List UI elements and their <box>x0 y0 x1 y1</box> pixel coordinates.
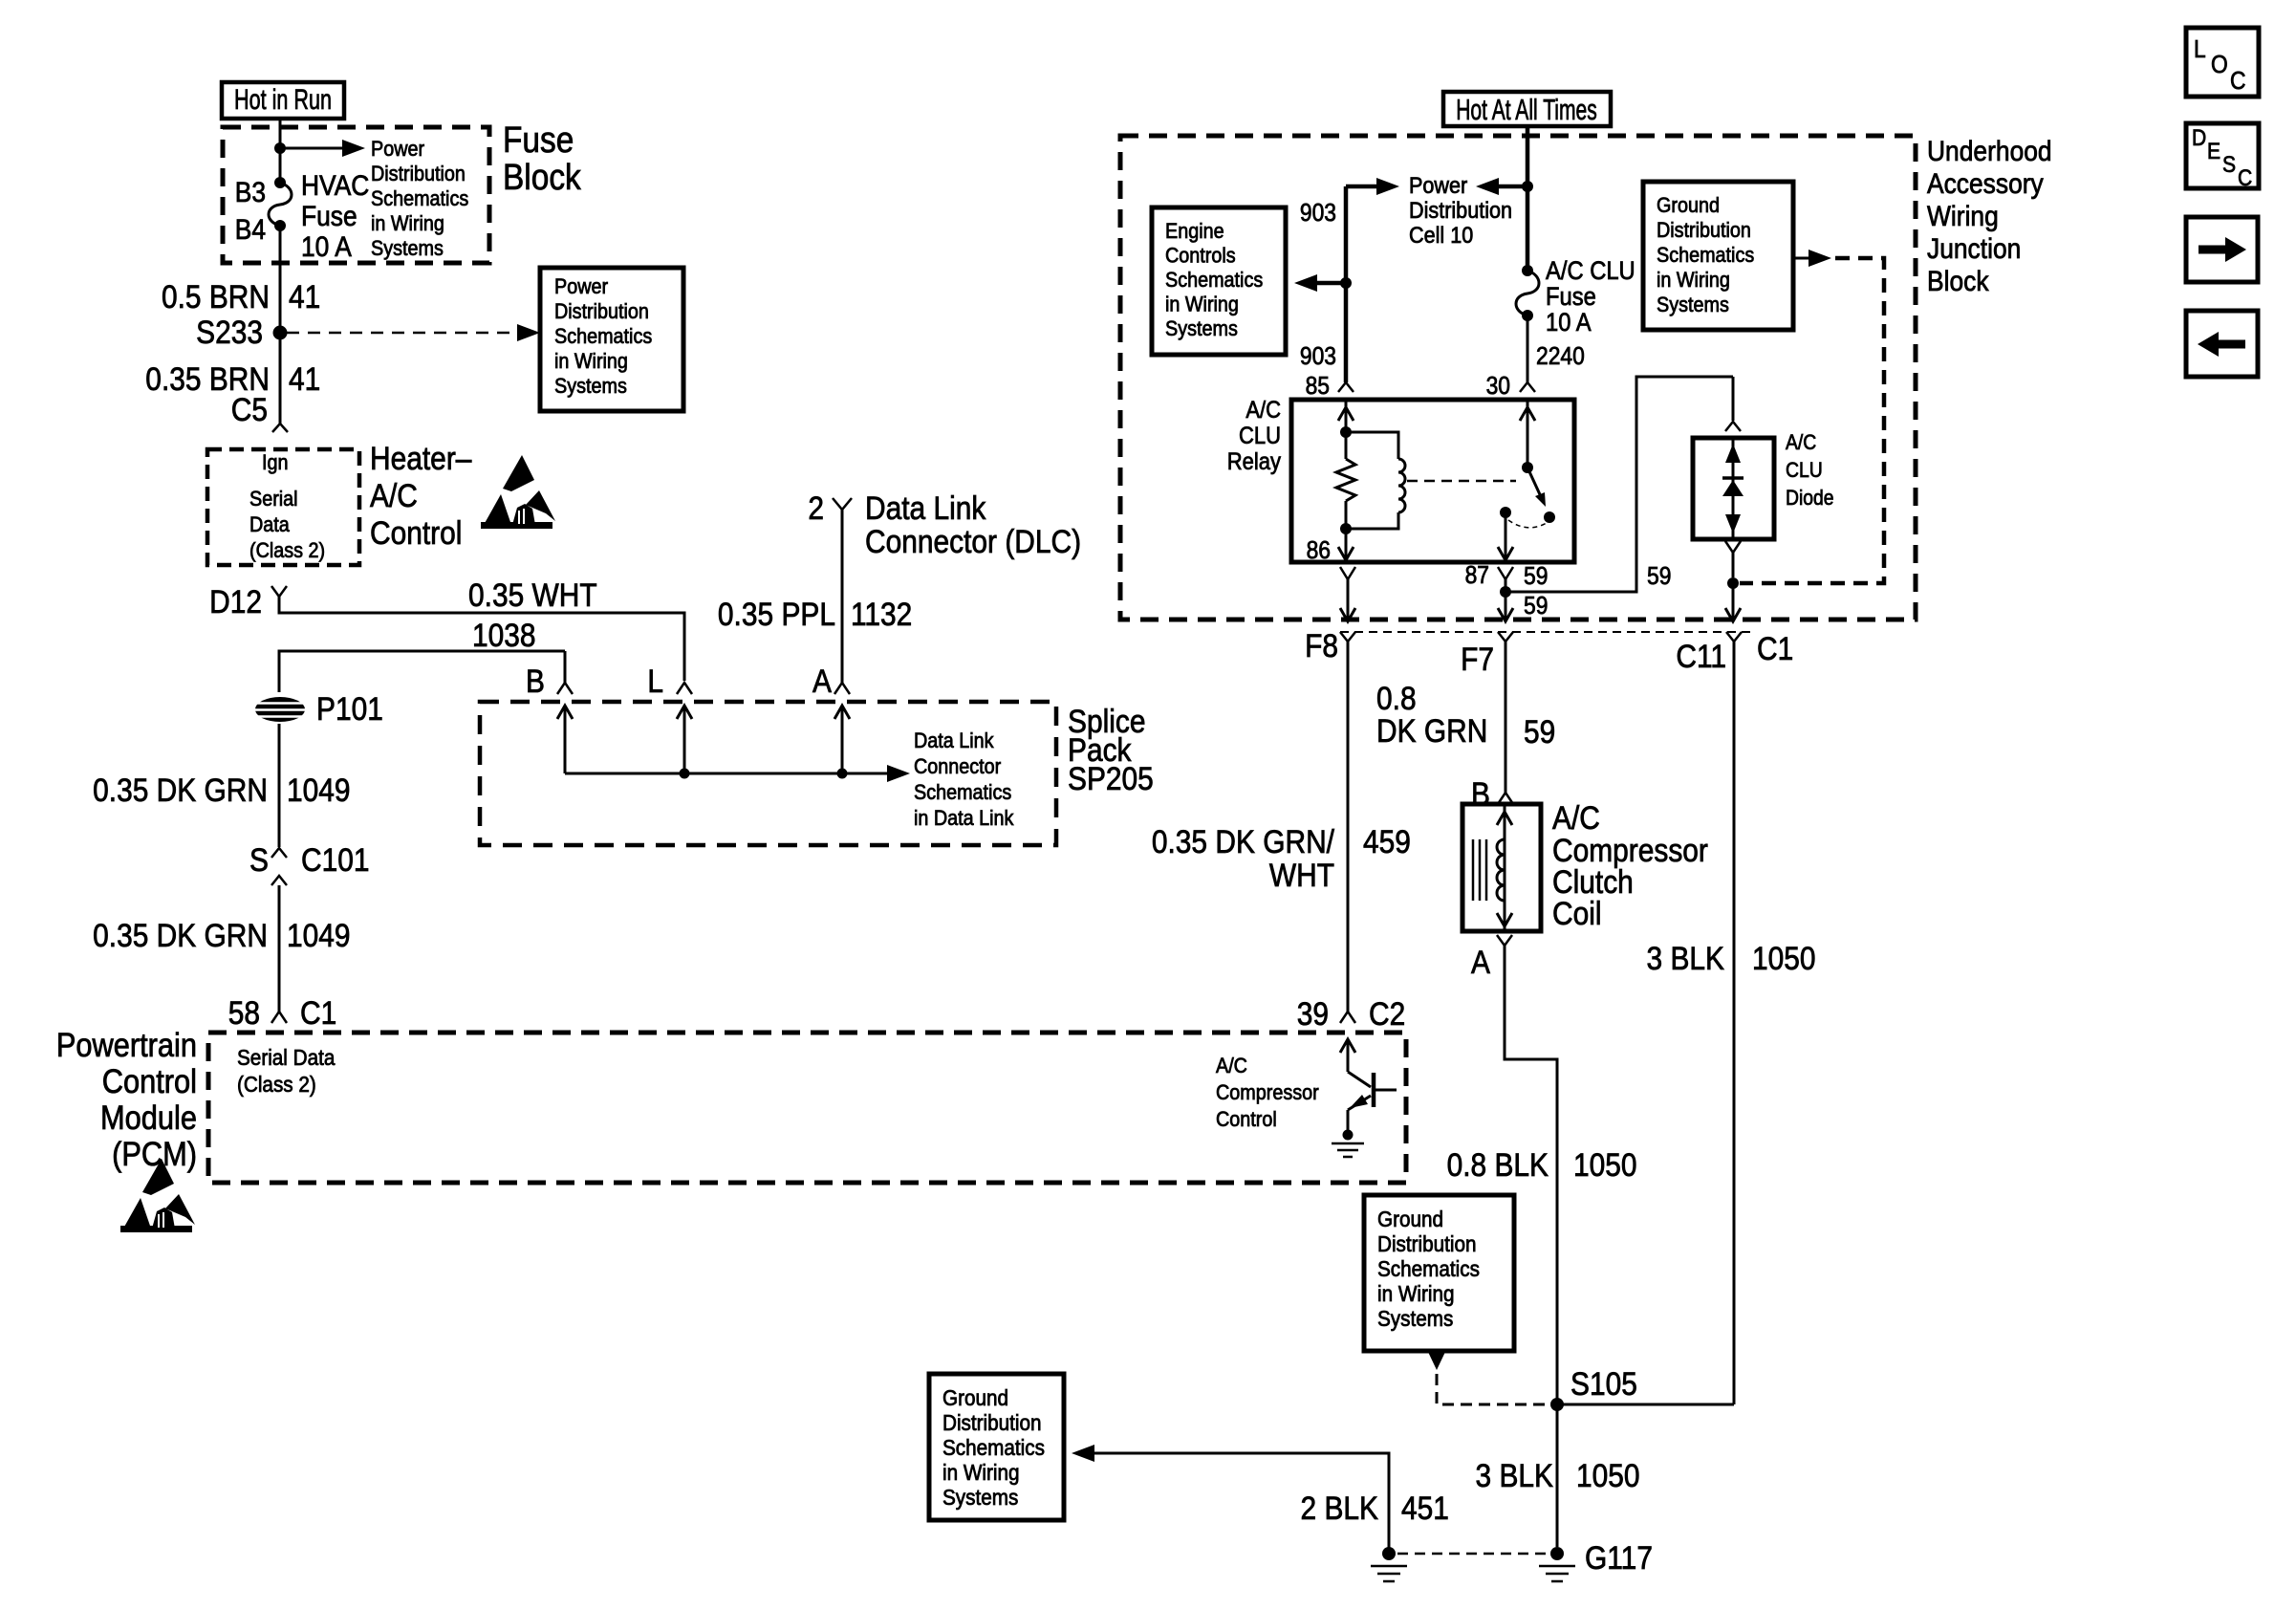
svg-text:1038: 1038 <box>472 617 536 653</box>
svg-text:3 BLK: 3 BLK <box>1647 940 1724 976</box>
svg-text:L: L <box>2194 36 2206 64</box>
svg-text:Serial Data: Serial Data <box>237 1045 336 1070</box>
svg-text:Connector: Connector <box>914 755 1001 778</box>
svg-text:(PCM): (PCM) <box>112 1135 197 1172</box>
svg-text:Serial: Serial <box>249 488 298 511</box>
svg-text:E: E <box>2207 139 2220 164</box>
svg-text:B: B <box>526 663 545 699</box>
svg-text:0.8 BLK: 0.8 BLK <box>1447 1146 1549 1183</box>
svg-text:Block: Block <box>1927 264 1989 296</box>
svg-text:A: A <box>812 663 833 699</box>
svg-text:Systems: Systems <box>371 237 444 260</box>
svg-text:C1: C1 <box>300 994 336 1031</box>
svg-text:A/C: A/C <box>1245 397 1281 424</box>
svg-text:(Class 2): (Class 2) <box>249 539 325 562</box>
svg-text:2: 2 <box>808 490 824 526</box>
svg-text:10 A: 10 A <box>301 229 352 262</box>
svg-text:459: 459 <box>1363 823 1411 859</box>
svg-text:Distribution: Distribution <box>1377 1231 1477 1256</box>
svg-text:G117: G117 <box>1585 1539 1653 1576</box>
svg-text:Diode: Diode <box>1786 487 1834 510</box>
svg-text:Systems: Systems <box>1165 317 1238 340</box>
svg-text:S105: S105 <box>1570 1365 1637 1402</box>
svg-text:C2: C2 <box>1369 995 1405 1032</box>
svg-text:0.35 PPL: 0.35 PPL <box>718 596 835 632</box>
svg-text:B4: B4 <box>235 212 266 245</box>
svg-text:Distribution: Distribution <box>1409 197 1512 223</box>
svg-text:Distribution: Distribution <box>371 163 466 185</box>
svg-text:F8: F8 <box>1305 627 1338 664</box>
svg-text:1050: 1050 <box>1576 1457 1640 1493</box>
svg-text:in Wiring: in Wiring <box>371 212 444 235</box>
svg-text:Schematics: Schematics <box>1165 269 1263 292</box>
svg-text:Data Link: Data Link <box>914 729 994 752</box>
svg-text:CLU: CLU <box>1239 423 1281 449</box>
svg-text:Fuse: Fuse <box>301 199 357 231</box>
svg-text:in Wiring: in Wiring <box>1377 1281 1455 1306</box>
svg-text:10 A: 10 A <box>1546 309 1592 337</box>
svg-text:Systems: Systems <box>942 1485 1018 1510</box>
svg-text:Data Link: Data Link <box>865 490 986 526</box>
svg-text:Ground: Ground <box>1657 194 1720 217</box>
svg-text:Cell 10: Cell 10 <box>1409 222 1473 248</box>
svg-text:Controls: Controls <box>1165 245 1236 268</box>
svg-text:0.35 DK GRN: 0.35 DK GRN <box>93 772 268 808</box>
svg-text:Systems: Systems <box>1377 1306 1453 1331</box>
svg-text:Hot At All Times: Hot At All Times <box>1456 93 1597 126</box>
svg-text:3 BLK: 3 BLK <box>1476 1457 1553 1493</box>
svg-text:59: 59 <box>1524 713 1555 750</box>
svg-text:86: 86 <box>1307 537 1331 565</box>
svg-text:451: 451 <box>1401 1490 1449 1526</box>
svg-text:Block: Block <box>503 157 581 197</box>
svg-text:B3: B3 <box>235 175 266 207</box>
svg-text:Junction: Junction <box>1927 231 2021 264</box>
svg-text:Ground: Ground <box>942 1385 1008 1410</box>
svg-text:Schematics: Schematics <box>914 781 1011 804</box>
svg-text:Connector (DLC): Connector (DLC) <box>865 523 1081 559</box>
svg-text:Hot in Run: Hot in Run <box>234 82 332 115</box>
svg-text:F7: F7 <box>1461 641 1494 677</box>
svg-text:Module: Module <box>100 1099 197 1136</box>
svg-text:0.8: 0.8 <box>1376 680 1417 716</box>
svg-text:Fuse: Fuse <box>503 120 574 160</box>
svg-text:CLU: CLU <box>1786 459 1823 482</box>
svg-text:Fuse: Fuse <box>1546 283 1596 312</box>
svg-text:Ground: Ground <box>1377 1207 1443 1231</box>
svg-text:B: B <box>1471 775 1490 812</box>
svg-text:2240: 2240 <box>1536 343 1585 371</box>
svg-text:A/C: A/C <box>1216 1055 1247 1077</box>
svg-text:Control: Control <box>102 1062 197 1099</box>
svg-text:A/C: A/C <box>1786 431 1816 454</box>
svg-text:Underhood: Underhood <box>1927 134 2052 166</box>
svg-text:S: S <box>249 841 269 878</box>
svg-text:87: 87 <box>1465 562 1489 590</box>
svg-text:Schematics: Schematics <box>942 1435 1045 1460</box>
svg-text:P101: P101 <box>316 690 383 727</box>
svg-text:59: 59 <box>1524 563 1548 591</box>
svg-text:Relay: Relay <box>1227 448 1281 475</box>
svg-text:Systems: Systems <box>554 375 627 398</box>
svg-text:Power: Power <box>371 138 424 161</box>
svg-text:59: 59 <box>1524 593 1548 620</box>
svg-text:Distribution: Distribution <box>942 1410 1042 1435</box>
svg-text:Schematics: Schematics <box>1377 1256 1480 1281</box>
svg-text:S233: S233 <box>196 314 263 350</box>
svg-text:Data: Data <box>249 513 290 536</box>
svg-text:Ign: Ign <box>262 451 289 474</box>
svg-text:in Wiring: in Wiring <box>1657 269 1730 292</box>
svg-text:0.5 BRN: 0.5 BRN <box>162 278 270 315</box>
svg-text:903: 903 <box>1300 200 1336 228</box>
svg-text:in Wiring: in Wiring <box>1165 294 1239 316</box>
svg-text:Control: Control <box>370 514 462 551</box>
svg-text:C: C <box>2238 165 2252 191</box>
svg-text:A: A <box>1471 944 1491 980</box>
svg-text:D12: D12 <box>209 583 262 620</box>
svg-text:85: 85 <box>1306 373 1330 401</box>
svg-text:41: 41 <box>289 278 320 315</box>
svg-text:0.35 DK GRN/: 0.35 DK GRN/ <box>1152 823 1334 859</box>
svg-text:1049: 1049 <box>287 772 351 808</box>
svg-text:L: L <box>647 663 663 699</box>
svg-text:HVAC: HVAC <box>301 168 369 201</box>
svg-text:Power: Power <box>554 275 608 298</box>
svg-text:39: 39 <box>1297 995 1329 1032</box>
svg-text:1049: 1049 <box>287 917 351 953</box>
svg-text:Schematics: Schematics <box>371 187 468 210</box>
svg-text:0.35 DK GRN: 0.35 DK GRN <box>93 917 268 953</box>
svg-text:903: 903 <box>1300 343 1336 371</box>
svg-text:1050: 1050 <box>1573 1146 1637 1183</box>
svg-text:C5: C5 <box>231 391 268 427</box>
svg-text:Systems: Systems <box>1657 294 1729 316</box>
svg-text:0.35 WHT: 0.35 WHT <box>468 577 597 613</box>
svg-text:Control: Control <box>1216 1108 1277 1131</box>
svg-text:Distribution: Distribution <box>554 300 649 323</box>
svg-text:2 BLK: 2 BLK <box>1301 1490 1378 1526</box>
svg-text:S: S <box>2222 152 2236 178</box>
svg-text:Engine: Engine <box>1165 220 1224 243</box>
svg-text:30: 30 <box>1486 373 1510 401</box>
svg-text:A/C CLU: A/C CLU <box>1546 257 1635 286</box>
svg-text:Coil: Coil <box>1552 895 1602 931</box>
svg-text:C1: C1 <box>1757 630 1793 666</box>
svg-text:A/C: A/C <box>370 477 418 513</box>
svg-text:Distribution: Distribution <box>1657 219 1751 242</box>
svg-text:58: 58 <box>228 994 260 1031</box>
svg-text:Compressor: Compressor <box>1216 1081 1319 1104</box>
svg-text:A/C: A/C <box>1552 799 1600 836</box>
svg-text:in Wiring: in Wiring <box>554 350 628 373</box>
svg-text:Accessory: Accessory <box>1927 166 2045 199</box>
svg-text:(Class 2): (Class 2) <box>237 1072 316 1097</box>
svg-text:Schematics: Schematics <box>554 325 652 348</box>
svg-text:C101: C101 <box>301 841 370 878</box>
svg-text:Power: Power <box>1409 172 1468 198</box>
svg-text:DK GRN: DK GRN <box>1376 712 1487 749</box>
svg-text:Schematics: Schematics <box>1657 244 1754 267</box>
svg-text:Wiring: Wiring <box>1927 199 1999 231</box>
svg-text:1050: 1050 <box>1752 940 1816 976</box>
svg-text:1132: 1132 <box>851 596 912 632</box>
svg-text:41: 41 <box>289 360 320 397</box>
svg-text:SP205: SP205 <box>1068 760 1154 796</box>
svg-text:Powertrain: Powertrain <box>56 1026 197 1063</box>
svg-text:in Data Link: in Data Link <box>914 807 1014 830</box>
svg-text:WHT: WHT <box>1269 857 1334 893</box>
svg-text:59: 59 <box>1647 563 1671 591</box>
svg-text:D: D <box>2192 125 2206 151</box>
svg-text:in Wiring: in Wiring <box>942 1460 1020 1485</box>
svg-text:Heater–: Heater– <box>370 440 472 476</box>
svg-text:C: C <box>2230 68 2246 96</box>
svg-text:C11: C11 <box>1676 638 1726 674</box>
svg-text:O: O <box>2211 52 2228 79</box>
